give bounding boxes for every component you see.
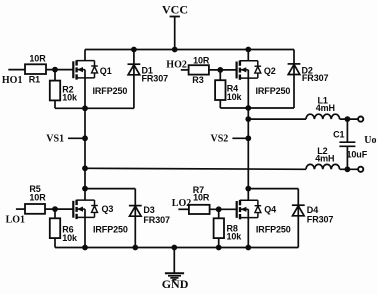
wire: Q3 source/body down to ground rail (84, 209, 86, 247)
node: Q4 gate node junction (216, 206, 222, 212)
wire: Q4 source/body down to ground rail (247, 209, 249, 247)
transistor Q1 (73, 60, 98, 79)
svg-text:4mH: 4mH (316, 103, 335, 113)
wire: Q2 drain up to top rail (247, 50, 249, 61)
wire: top VCC rail (85, 49, 294, 51)
wire: bottom ground rail (55, 247, 298, 249)
wire: R8 bottom to ground rail (218, 238, 220, 247)
svg-text:D3: D3 (143, 205, 154, 215)
wire: gate node down to R4 (219, 70, 221, 80)
node: junction C1 top (345, 116, 351, 122)
svg-text:10k: 10k (62, 93, 78, 103)
wire: R7 to Q4 gate (210, 208, 236, 210)
wire: gate node down to R6 (54, 209, 56, 218)
transistor Q4 (237, 200, 262, 219)
svg-text:VS1: VS1 (46, 133, 64, 144)
diode D2 (288, 64, 301, 75)
svg-text:10uF: 10uF (347, 150, 368, 160)
wire: Q1 source rail (55, 107, 134, 109)
svg-text:10R: 10R (193, 56, 210, 66)
svg-text:IRFP250: IRFP250 (93, 225, 128, 235)
wire: right leg to L1 (248, 118, 306, 120)
svg-text:Q4: Q4 (264, 204, 276, 214)
wire: L1 to output terminal (340, 118, 358, 120)
node: junction Q2 source on rail (245, 105, 251, 111)
svg-text:Uo: Uo (364, 135, 376, 146)
svg-text:LO1: LO1 (6, 215, 25, 226)
svg-text:Q3: Q3 (102, 204, 114, 214)
diode D1 (127, 64, 140, 75)
VCC supply symbol (170, 17, 180, 50)
svg-text:10R: 10R (29, 192, 46, 202)
resistor R7 (189, 205, 210, 214)
node: junction D3 bottom (132, 245, 138, 251)
wire: Q1 drain up to top rail (84, 50, 86, 61)
node: junction VCC on top rail (172, 47, 178, 53)
wire: D2 vertical (293, 50, 295, 109)
wire: Q4 drain rail (248, 188, 298, 190)
svg-text:GND: GND (162, 277, 189, 291)
svg-text:HO2: HO2 (166, 59, 187, 70)
wire: LO2 input stub (178, 208, 189, 210)
diode D4 (292, 205, 305, 216)
resistor R6 (50, 218, 60, 238)
wire: HO2 input stub (181, 69, 189, 71)
wire: VS1 stub (68, 137, 85, 139)
wire: LO1 input stub (16, 208, 25, 210)
wire: R2 bottom to source rail (54, 100, 56, 108)
node A: Q1 gate node junction (52, 67, 58, 73)
svg-text:R1: R1 (29, 74, 40, 84)
wire: Q2 source rail (220, 107, 294, 109)
transistor Q2 (237, 60, 262, 79)
svg-text:VS2: VS2 (211, 133, 229, 144)
wire: R1 to Q1 gate (46, 69, 73, 71)
resistor R3 (189, 65, 209, 74)
wire: HO1 input stub (8, 69, 25, 71)
svg-text:IRFP250: IRFP250 (93, 86, 128, 96)
transistor Q3 (73, 200, 98, 219)
wire: D3 vertical (134, 189, 136, 248)
node: Q3 gate node junction (52, 206, 58, 212)
svg-text:10R: 10R (29, 54, 46, 64)
wire: R6 bottom to ground rail (54, 238, 56, 247)
resistor R4 (215, 80, 225, 100)
svg-text:10k: 10k (227, 92, 243, 102)
node: Q2 gate node junction (217, 67, 223, 73)
ground (165, 248, 184, 280)
wire: Q2 source/body down right leg to Q4 drain (247, 70, 249, 201)
node: junction L1 branch (245, 116, 251, 122)
svg-text:10k: 10k (227, 232, 243, 242)
wire: gate node down to R2 (54, 70, 56, 81)
svg-text:FR307: FR307 (307, 214, 334, 224)
node: junction GND tap (171, 245, 177, 251)
svg-text:Q2: Q2 (264, 66, 276, 76)
resistor R1 (25, 64, 46, 74)
svg-text:FR307: FR307 (143, 215, 170, 225)
wire: VS2 stub (232, 137, 248, 139)
node: junction VS1 (82, 135, 88, 141)
resistor R8 (214, 218, 224, 238)
svg-text:R3: R3 (192, 75, 203, 85)
wire: Q3 drain rail (85, 188, 135, 190)
node: junction C1 bottom (345, 166, 351, 172)
node: junction Q4 source on ground rail (245, 245, 251, 251)
svg-text:IRFP250: IRFP250 (256, 225, 291, 235)
svg-text:C1: C1 (333, 130, 344, 140)
wire: left leg to L2 (85, 168, 306, 169)
node: junction VS2 (245, 135, 251, 141)
node: junction L2 branch (82, 165, 88, 171)
resistor R2 (50, 81, 60, 101)
wire: R4 bottom to source rail (219, 100, 221, 108)
wire: gate node down to R8 (218, 209, 220, 218)
svg-text:FR307: FR307 (302, 73, 329, 83)
svg-text:10k: 10k (62, 233, 78, 243)
wire: R3 to Q2 gate (209, 69, 236, 71)
node: junction R8 bottom (216, 245, 222, 251)
svg-text:IRFP250: IRFP250 (256, 86, 291, 96)
terminal: output + (358, 117, 363, 122)
node: junction Q3 drain (82, 186, 88, 192)
node: junction Q4 drain (245, 186, 251, 192)
resistor R5 (25, 204, 45, 214)
capacitor C1 (339, 119, 355, 169)
node: junction D1 top (131, 47, 137, 53)
wire: D1 vertical (133, 50, 135, 109)
wire: Q1 source/body down left leg to Q3 drain (84, 70, 86, 201)
diode D3 (129, 206, 142, 217)
svg-text:FR307: FR307 (142, 74, 169, 84)
inductor L1 (306, 114, 340, 119)
svg-text:4mH: 4mH (315, 154, 334, 164)
svg-text:10R: 10R (193, 192, 210, 202)
svg-text:VCC: VCC (162, 2, 188, 16)
node: junction Q2 drain (245, 47, 251, 53)
node: junction Q1 source on rail (82, 105, 88, 111)
svg-text:Q1: Q1 (100, 66, 112, 76)
node: junction Q3 source on ground rail (82, 245, 88, 251)
wire: R5 to Q3 gate (45, 208, 73, 210)
wire: D4 vertical (297, 189, 299, 248)
terminal: output - (358, 167, 363, 172)
inductor L2 (306, 164, 340, 169)
wire: L2 to output terminal (340, 168, 358, 170)
svg-text:HO1: HO1 (2, 75, 23, 86)
